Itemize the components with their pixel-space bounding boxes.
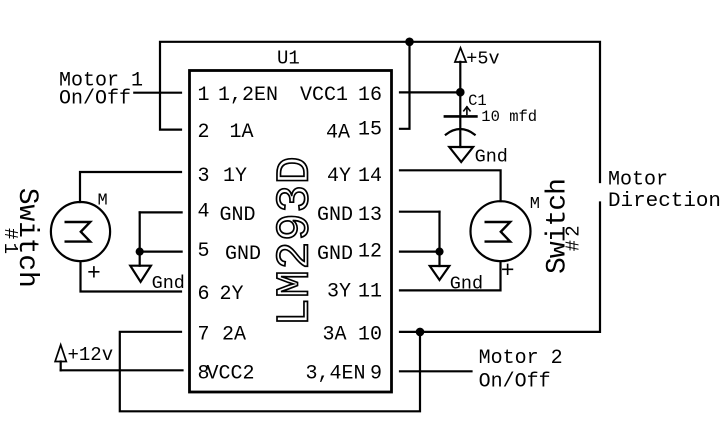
label +5v: [466, 49, 499, 70]
svg-text:M: M: [98, 192, 108, 211]
svg-text:2A: 2A: [222, 323, 246, 346]
ground (right motor): [430, 266, 450, 280]
label M (motor 2): [530, 195, 540, 214]
svg-text:On/Off: On/Off: [59, 87, 131, 110]
wire motor 1 bottom to pin 6: [81, 261, 182, 291]
svg-text:Motor: Motor: [608, 169, 668, 192]
svg-text:16: 16: [358, 84, 382, 107]
node junction pin5 gnd: [137, 249, 143, 255]
pin 7 labels: [198, 323, 383, 346]
svg-text:+: +: [87, 261, 101, 287]
svg-text:4A: 4A: [326, 122, 350, 145]
label Motor Direction: [608, 169, 721, 214]
svg-text:3A: 3A: [322, 323, 346, 346]
ground (capacitor): [449, 147, 473, 162]
label Motor 2 On/Off: [479, 347, 563, 393]
pin 8 labels: [198, 362, 383, 385]
power +12v supply: [55, 345, 66, 371]
svg-text:3: 3: [198, 165, 210, 188]
svg-text:M: M: [530, 195, 540, 214]
wire pin 14 to motor 2 top: [400, 170, 501, 201]
wire pin10 down to bottom rail to pin 7: [120, 332, 420, 412]
pin 2 labels: [198, 119, 383, 145]
power +5v supply: [455, 48, 466, 116]
pin 3 labels: [198, 165, 383, 188]
svg-text:2: 2: [198, 121, 210, 144]
label Switch #2: [543, 178, 585, 274]
label M (motor 1): [98, 192, 108, 211]
node junction top rail: [406, 39, 412, 45]
capacitor C1: [445, 107, 477, 147]
svg-text:+: +: [501, 258, 515, 284]
svg-text:LM293D: LM293D: [269, 156, 322, 326]
label LM293D: [269, 156, 322, 326]
wire pin 8 VCC2: [61, 369, 183, 371]
label C1: [468, 92, 487, 110]
motor M (switch #1): [51, 202, 110, 261]
motor M (switch #2): [471, 201, 531, 261]
wire pin 9 enable: [400, 370, 472, 372]
svg-text:4Y: 4Y: [327, 165, 351, 188]
svg-text:GND: GND: [225, 243, 261, 266]
svg-text:6: 6: [198, 283, 210, 306]
svg-text:Gnd: Gnd: [152, 273, 185, 294]
svg-text:On/Off: On/Off: [479, 370, 551, 393]
label Motor 1 On/Off: [59, 70, 143, 111]
pin 1 labels: [198, 84, 383, 107]
svg-text:GND: GND: [317, 243, 353, 266]
label Gnd (capacitor): [475, 147, 508, 168]
label Gnd (left): [152, 273, 185, 294]
svg-text:1,2EN: 1,2EN: [218, 84, 278, 107]
svg-text:11: 11: [358, 281, 382, 304]
wire pin 15 to top rail: [400, 42, 410, 129]
label +12v: [68, 344, 114, 366]
svg-text:15: 15: [358, 119, 382, 142]
svg-text:5: 5: [198, 240, 210, 263]
label Gnd (right): [450, 274, 483, 295]
wire pin 16 VCC1: [400, 91, 460, 93]
svg-text:VCC1: VCC1: [300, 84, 348, 107]
pin 5 labels: [198, 240, 383, 266]
wire net: pin2 to top rail to motor-direction line to pin10: [160, 42, 600, 332]
svg-text:7: 7: [198, 323, 210, 346]
svg-text:+12v: +12v: [68, 344, 114, 366]
svg-text:9: 9: [370, 362, 382, 385]
wire pin 1 enable: [134, 92, 181, 94]
svg-text:Motor 2: Motor 2: [479, 347, 563, 370]
pin 6 labels: [198, 281, 383, 307]
svg-text:Gnd: Gnd: [450, 274, 483, 295]
wire pin 4 gnd branch: [140, 212, 182, 265]
label + (motor 1): [87, 261, 101, 287]
label U1: [277, 48, 300, 70]
svg-text:Direction: Direction: [608, 190, 721, 213]
svg-text:1: 1: [198, 84, 210, 107]
svg-text:1A: 1A: [230, 121, 254, 144]
svg-text:C1: C1: [468, 92, 487, 110]
ground (left motor): [130, 266, 151, 282]
svg-text:GND: GND: [317, 204, 353, 227]
svg-text:3,4EN: 3,4EN: [305, 362, 365, 385]
wire pin 13 gnd branch: [400, 212, 440, 266]
svg-text:13: 13: [358, 204, 382, 227]
svg-text:GND: GND: [220, 204, 256, 227]
wire pin 3 to motor 1 top: [80, 172, 181, 202]
label + (motor 2): [501, 258, 515, 284]
svg-text:3Y: 3Y: [327, 281, 351, 304]
svg-text:U1: U1: [277, 48, 300, 70]
node junction VCC1: [457, 89, 463, 95]
svg-text:14: 14: [358, 165, 382, 188]
svg-text:10: 10: [358, 323, 382, 346]
svg-text:10 mfd: 10 mfd: [481, 108, 537, 126]
pin 4 labels: [198, 201, 383, 227]
node junction pin12 gnd: [437, 249, 443, 255]
label 10 mfd: [481, 108, 537, 126]
svg-text:VCC2: VCC2: [207, 362, 255, 385]
svg-text:Gnd: Gnd: [475, 147, 508, 168]
op-amp U1: [190, 71, 392, 393]
label Switch #1: [0, 188, 42, 288]
node junction pin10: [417, 329, 423, 335]
svg-text:12: 12: [358, 241, 382, 264]
svg-text:2Y: 2Y: [220, 283, 244, 306]
wire motor 2 bottom to pin 11: [400, 261, 501, 290]
svg-text:+5v: +5v: [466, 49, 499, 70]
svg-text:1Y: 1Y: [223, 165, 247, 188]
svg-text:4: 4: [198, 201, 210, 224]
